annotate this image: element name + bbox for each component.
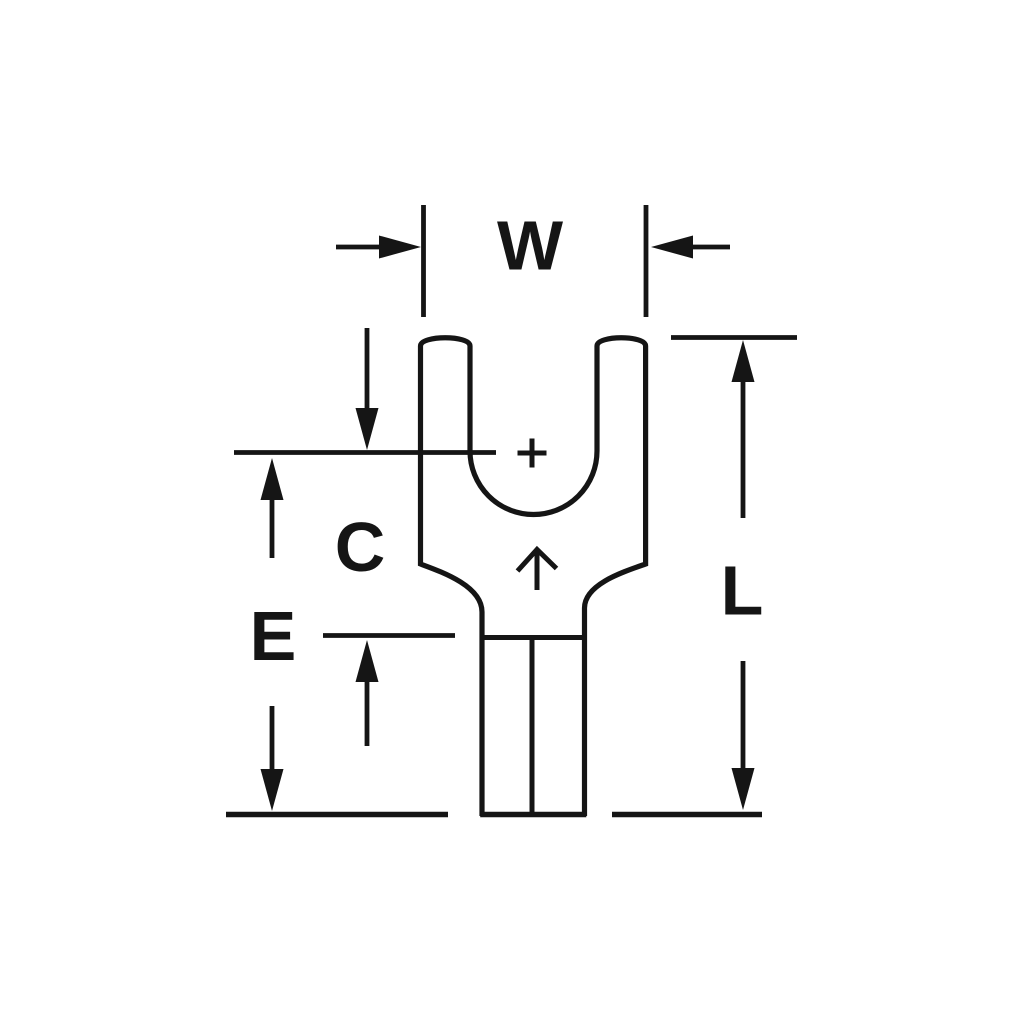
W right arrow line xyxy=(692,245,730,250)
W left extension line xyxy=(421,205,426,317)
barrel center line xyxy=(530,640,535,812)
fork terminal outline xyxy=(421,338,646,816)
open chevron up arrow inside terminal xyxy=(518,550,557,591)
W right arrowhead (points left) xyxy=(651,236,693,259)
barrel seam line xyxy=(482,635,585,640)
svg-text:W: W xyxy=(497,207,563,285)
E top arrowhead (points up) xyxy=(261,458,284,500)
W right extension line xyxy=(644,205,649,317)
baseline right segment xyxy=(612,812,762,817)
E bottom arrowhead (points down) xyxy=(261,769,284,811)
L top extension line xyxy=(671,335,797,340)
L down arrowhead xyxy=(732,768,755,810)
W left arrow line xyxy=(336,245,383,250)
L up arrowhead xyxy=(732,340,755,382)
C bottom arrow shaft xyxy=(365,678,370,746)
slot center extension line xyxy=(234,450,496,455)
E bottom arrow shaft xyxy=(270,706,275,772)
baseline left segment xyxy=(226,812,448,817)
plus marker at slot center xyxy=(518,439,547,468)
svg-text:C: C xyxy=(335,508,386,586)
C bottom arrowhead (points up) xyxy=(356,640,379,682)
E top arrow shaft xyxy=(270,496,275,558)
L down arrow shaft xyxy=(741,661,746,770)
barrel bottom xyxy=(480,812,586,817)
C top arrowhead (points down) xyxy=(356,408,379,450)
L up arrow shaft xyxy=(741,380,746,518)
svg-text:E: E xyxy=(250,597,297,675)
svg-text:L: L xyxy=(721,552,764,630)
seam extension line (E line) xyxy=(323,633,455,638)
C top arrow shaft xyxy=(365,328,370,412)
W left arrowhead (points right) xyxy=(379,236,421,259)
